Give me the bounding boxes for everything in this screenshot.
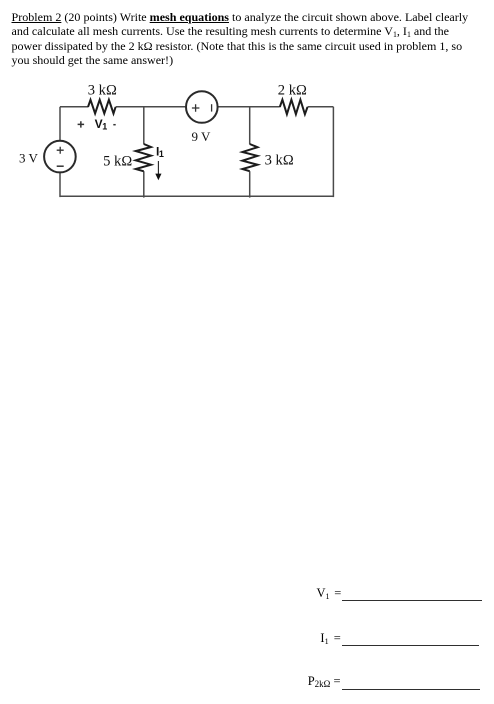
svg-text:3 V: 3 V (19, 150, 39, 165)
svg-text:1: 1 (102, 122, 107, 132)
svg-text:5 kΩ: 5 kΩ (103, 153, 132, 169)
svg-text:1: 1 (159, 149, 164, 159)
svg-text:3 kΩ: 3 kΩ (88, 83, 117, 99)
svg-text:9 V: 9 V (192, 129, 212, 144)
svg-text:3 kΩ: 3 kΩ (265, 152, 294, 168)
svg-text:2 kΩ: 2 kΩ (278, 82, 307, 98)
